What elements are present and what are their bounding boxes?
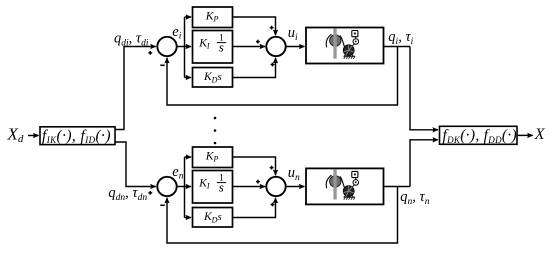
wire branch to KD: [185, 77, 192, 79]
wire Xd to fIK: [28, 135, 39, 137]
wire branch vertical bottom: [184, 157, 186, 218]
svg-text:s: s: [219, 40, 224, 55]
plant2 icon: [326, 169, 358, 200]
summing junction sum2 (top): [266, 37, 285, 56]
plant1 icon: [326, 28, 358, 59]
summing junction sum1 (top): [157, 37, 176, 56]
wire KI2 to sum2b: [233, 186, 266, 188]
wire KP2 to sum2b: [233, 157, 276, 175]
wire fIK to sum1 top channel: [115, 47, 156, 130]
wire plant1 to fDK: [410, 47, 438, 130]
wire plant2 output: [384, 186, 411, 188]
wire sum1 to KI: [177, 46, 191, 48]
wire branch to KP2: [185, 156, 192, 158]
minus sign sum1b: [160, 204, 164, 206]
wire feedback top: [167, 47, 398, 106]
summing junction sum1b (bottom): [157, 177, 176, 196]
block fDK,fDD: [440, 126, 518, 144]
block plant1: [306, 28, 384, 64]
plus sign sum1: [148, 51, 152, 55]
wire sum1b to KI2: [177, 186, 191, 188]
block KP (bottom): [193, 147, 233, 168]
dots vertical ellipsis: [214, 117, 217, 120]
wire plant1 output: [384, 46, 411, 48]
wire sum2 to plant1: [286, 46, 304, 48]
block KP (top): [193, 7, 233, 28]
wire KP to sum2: [233, 17, 276, 35]
svg-text:X: X: [534, 126, 546, 143]
plus sign left of sum2: [256, 40, 260, 44]
wire plant2 to fDK: [410, 140, 438, 187]
wire fIK to sum1 bottom channel: [115, 142, 156, 187]
block KD s (bottom): [193, 208, 233, 228]
summing junction sum2b (bottom): [266, 177, 285, 196]
plus sign top of sum2: [270, 26, 274, 30]
wire branch vertical: [184, 17, 186, 78]
wire KD2 to sum2b: [233, 198, 276, 218]
block KD s (top): [193, 68, 233, 88]
minus sign sum1: [160, 64, 164, 66]
plus sign bottom of sum2: [271, 63, 275, 67]
block plant2: [306, 168, 384, 204]
wire branch to KD2: [185, 217, 192, 219]
plus sign top of sum2b: [270, 166, 274, 170]
wire sum2b to plant2: [286, 186, 304, 188]
block KI 1/s (bottom): [193, 171, 233, 204]
svg-text:s: s: [219, 180, 224, 195]
block KI 1/s (top): [193, 31, 233, 64]
block fIK,fID: [40, 127, 115, 145]
wire branch to KP: [185, 16, 192, 18]
plus sign bottom of sum2b: [271, 203, 275, 207]
wire KI to sum2: [233, 46, 266, 48]
wire KD to sum2: [233, 58, 276, 78]
plus sign sum1b: [148, 191, 152, 195]
svg-text:qi, τi: qi, τi: [388, 29, 413, 47]
plus sign left of sum2b: [256, 180, 260, 184]
wire fDK to X: [518, 134, 533, 136]
wire feedback bottom: [167, 187, 398, 244]
